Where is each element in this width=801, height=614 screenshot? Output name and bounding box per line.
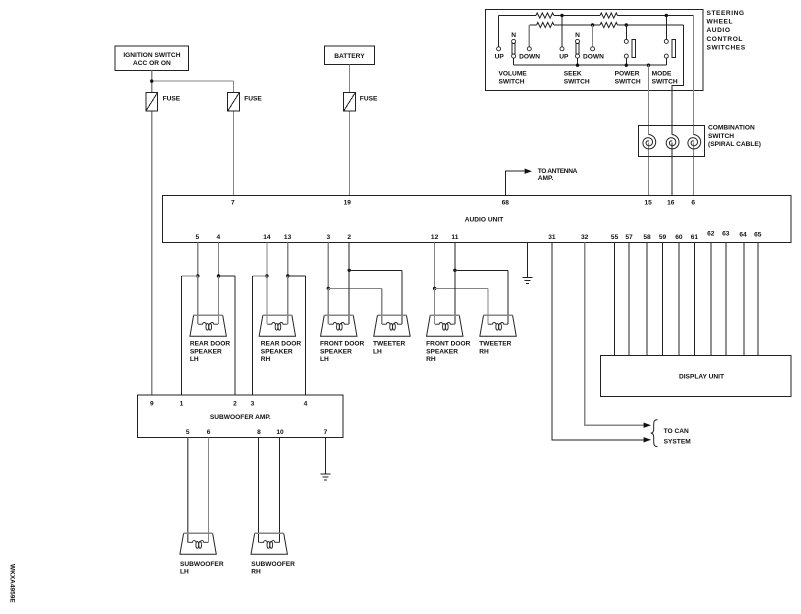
- svg-text:RH: RH: [251, 569, 261, 576]
- svg-text:COMBINATION: COMBINATION: [708, 125, 755, 132]
- svg-text:68: 68: [502, 200, 510, 207]
- svg-text:TWEETER: TWEETER: [479, 340, 511, 347]
- svg-text:5: 5: [195, 234, 199, 241]
- svg-text:RH: RH: [426, 356, 436, 363]
- svg-text:5: 5: [186, 429, 190, 436]
- svg-text:31: 31: [548, 234, 556, 241]
- svg-text:N: N: [575, 32, 580, 39]
- svg-text:15: 15: [645, 200, 653, 207]
- svg-text:DISPLAY UNIT: DISPLAY UNIT: [679, 374, 724, 381]
- svg-text:6: 6: [207, 429, 211, 436]
- svg-text:FUSE: FUSE: [360, 96, 378, 103]
- svg-text:AUDIO: AUDIO: [707, 27, 731, 34]
- svg-text:SWITCH: SWITCH: [564, 78, 590, 85]
- svg-text:63: 63: [722, 231, 730, 238]
- svg-text:FUSE: FUSE: [163, 96, 181, 103]
- svg-text:60: 60: [675, 234, 683, 241]
- svg-text:4: 4: [304, 400, 308, 407]
- svg-text:REAR DOOR: REAR DOOR: [190, 340, 231, 347]
- svg-text:3: 3: [251, 400, 255, 407]
- svg-text:SYSTEM: SYSTEM: [664, 438, 692, 445]
- svg-text:SUBWOOFER AMP.: SUBWOOFER AMP.: [210, 414, 271, 421]
- svg-text:FRONT DOOR: FRONT DOOR: [426, 340, 471, 347]
- svg-text:SEEK: SEEK: [564, 71, 582, 78]
- svg-text:BATTERY: BATTERY: [334, 53, 365, 60]
- svg-text:UP: UP: [559, 53, 569, 60]
- svg-text:FUSE: FUSE: [244, 96, 262, 103]
- svg-text:FRONT DOOR: FRONT DOOR: [320, 340, 365, 347]
- svg-text:STEERING: STEERING: [707, 10, 745, 17]
- svg-text:2: 2: [233, 400, 237, 407]
- svg-text:10: 10: [276, 429, 284, 436]
- svg-text:WKXA4959E: WKXA4959E: [9, 564, 16, 603]
- svg-text:SPEAKER: SPEAKER: [320, 348, 352, 355]
- svg-text:UP: UP: [495, 53, 505, 60]
- svg-text:16: 16: [667, 200, 675, 207]
- svg-text:ACC OR ON: ACC OR ON: [133, 60, 171, 67]
- svg-text:AMP.: AMP.: [538, 175, 554, 182]
- svg-text:TWEETER: TWEETER: [373, 340, 405, 347]
- svg-text:LH: LH: [180, 569, 189, 576]
- svg-text:MODE: MODE: [652, 71, 672, 78]
- svg-text:TO CAN: TO CAN: [664, 428, 689, 435]
- svg-text:32: 32: [581, 234, 589, 241]
- svg-text:LH: LH: [373, 348, 382, 355]
- svg-text:1: 1: [180, 400, 184, 407]
- svg-text:SWITCH: SWITCH: [652, 78, 678, 85]
- svg-text:SWITCHES: SWITCHES: [707, 45, 746, 52]
- svg-text:IGNITION SWITCH: IGNITION SWITCH: [123, 52, 180, 59]
- svg-text:6: 6: [691, 200, 695, 207]
- svg-text:VOLUME: VOLUME: [499, 71, 528, 78]
- svg-text:7: 7: [324, 429, 328, 436]
- svg-text:SWITCH: SWITCH: [615, 78, 641, 85]
- svg-text:POWER: POWER: [615, 71, 640, 78]
- svg-text:55: 55: [611, 234, 619, 241]
- svg-text:SPEAKER: SPEAKER: [261, 348, 293, 355]
- svg-text:LH: LH: [320, 356, 329, 363]
- svg-text:7: 7: [231, 200, 235, 207]
- svg-text:12: 12: [431, 234, 439, 241]
- svg-text:19: 19: [344, 200, 352, 207]
- svg-text:SPEAKER: SPEAKER: [190, 348, 222, 355]
- svg-text:DOWN: DOWN: [519, 53, 540, 60]
- svg-text:62: 62: [707, 231, 715, 238]
- svg-text:57: 57: [625, 234, 633, 241]
- svg-text:9: 9: [150, 400, 154, 407]
- svg-text:2: 2: [347, 234, 351, 241]
- svg-text:SUBWOOFER: SUBWOOFER: [180, 561, 224, 568]
- svg-text:65: 65: [754, 232, 762, 239]
- svg-text:REAR DOOR: REAR DOOR: [261, 340, 302, 347]
- svg-text:N: N: [511, 32, 516, 39]
- svg-text:(SPIRAL CABLE): (SPIRAL CABLE): [708, 141, 761, 148]
- svg-text:RH: RH: [479, 348, 489, 355]
- svg-text:SPEAKER: SPEAKER: [426, 348, 458, 355]
- svg-text:LH: LH: [190, 356, 199, 363]
- svg-text:64: 64: [739, 232, 747, 239]
- svg-text:8: 8: [257, 429, 261, 436]
- svg-text:11: 11: [451, 234, 458, 241]
- svg-text:TO ANTENNA: TO ANTENNA: [538, 168, 578, 175]
- svg-text:SWITCH: SWITCH: [708, 133, 734, 140]
- svg-text:3: 3: [326, 234, 330, 241]
- svg-text:CONTROL: CONTROL: [707, 36, 743, 43]
- svg-text:WHEEL: WHEEL: [707, 18, 734, 25]
- svg-text:SUBWOOFER: SUBWOOFER: [251, 561, 295, 568]
- svg-text:RH: RH: [261, 356, 271, 363]
- svg-text:14: 14: [263, 234, 271, 241]
- svg-text:4: 4: [216, 234, 220, 241]
- svg-text:61: 61: [691, 234, 699, 241]
- svg-text:SWITCH: SWITCH: [499, 78, 525, 85]
- svg-text:59: 59: [659, 234, 667, 241]
- svg-text:13: 13: [284, 234, 292, 241]
- svg-text:AUDIO UNIT: AUDIO UNIT: [465, 217, 503, 224]
- svg-text:58: 58: [643, 234, 651, 241]
- svg-text:DOWN: DOWN: [583, 53, 604, 60]
